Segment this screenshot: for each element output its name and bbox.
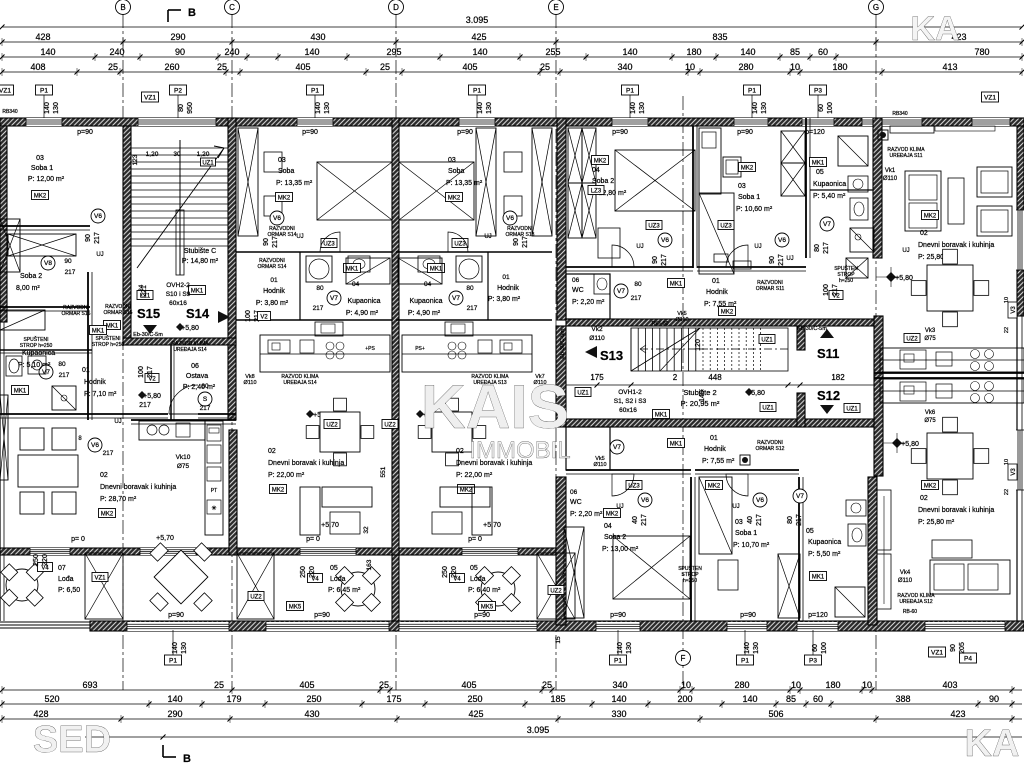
svg-text:217: 217 — [661, 254, 668, 266]
svg-text:P: 3,80 m²: P: 3,80 m² — [488, 296, 521, 303]
svg-text:140: 140 — [477, 102, 484, 114]
svg-text:90: 90 — [64, 258, 72, 265]
label UZ3 — [718, 221, 734, 230]
svg-text:G: G — [873, 3, 879, 12]
svg-text:140: 140 — [611, 694, 626, 704]
label V6 — [638, 493, 652, 507]
svg-text:10: 10 — [862, 680, 872, 690]
svg-text:Hodnik: Hodnik — [706, 289, 728, 296]
label MK2 — [706, 481, 723, 490]
svg-text:290: 290 — [170, 32, 185, 42]
svg-text:h=250: h=250 — [839, 278, 853, 284]
svg-text:p=120: p=120 — [805, 129, 825, 136]
svg-text:60x16: 60x16 — [169, 300, 187, 307]
svg-text:80: 80 — [466, 285, 474, 292]
svg-text:P: 4,90 m²: P: 4,90 m² — [346, 310, 379, 317]
svg-text:S10 i S9: S10 i S9 — [166, 291, 191, 298]
kitchen unit2 — [260, 335, 390, 372]
label VZ1 top-left — [0, 85, 14, 95]
svg-text:05: 05 — [330, 565, 338, 572]
svg-text:S14: S14 — [186, 306, 210, 321]
label LZ1 — [137, 291, 153, 300]
svg-text:V6: V6 — [661, 237, 669, 244]
svg-text:06: 06 — [572, 277, 580, 284]
svg-text:P1: P1 — [169, 657, 177, 664]
grid line G — [875, 14, 877, 690]
stairwell S11 west wall upper — [797, 326, 805, 350]
svg-text:295: 295 — [386, 47, 401, 57]
svg-text:UZ3: UZ3 — [648, 223, 660, 229]
svg-text:P: 2,20 m²: P: 2,20 m² — [570, 511, 603, 518]
svg-text:02: 02 — [456, 448, 464, 455]
svg-text:03: 03 — [36, 155, 44, 162]
svg-text:Dnevni boravak i kuhinja: Dnevni boravak i kuhinja — [100, 484, 176, 491]
stem — [177, 95, 179, 118]
ostava bottom wall — [131, 419, 236, 421]
window — [459, 118, 495, 126]
svg-text:250: 250 — [467, 694, 482, 704]
svg-text:10: 10 — [790, 62, 800, 72]
svg-text:+5,80: +5,80 — [181, 325, 199, 332]
desk u4L — [718, 560, 738, 590]
svg-text:MK1: MK1 — [655, 412, 668, 418]
svg-text:05: 05 — [470, 565, 478, 572]
svg-text:40: 40 — [747, 516, 754, 524]
coffee table s11 — [948, 178, 964, 224]
bed u4L soba1 — [699, 477, 732, 554]
label V6 — [503, 211, 517, 225]
stem b — [744, 630, 746, 655]
svg-text:140: 140 — [167, 694, 182, 704]
armchair l3 — [20, 492, 44, 514]
svg-text:217: 217 — [631, 295, 642, 302]
stair 2 walk line — [640, 348, 700, 350]
svg-text:P1: P1 — [311, 87, 319, 94]
svg-text:1,20: 1,20 — [197, 151, 210, 158]
svg-text:V6: V6 — [273, 215, 281, 222]
svg-text:140: 140 — [472, 47, 487, 57]
svg-text:p=90: p=90 — [740, 612, 756, 619]
svg-text:UZ1: UZ1 — [761, 337, 773, 343]
door arc soba2 u4 — [612, 245, 634, 267]
svg-text:MK1: MK1 — [346, 266, 359, 272]
armchair l4 — [52, 492, 76, 514]
S12 arrow down — [820, 405, 834, 414]
bottom exterior wall — [90, 621, 1024, 631]
svg-text:Ostava: Ostava — [186, 373, 208, 380]
svg-text:S: S — [203, 396, 208, 403]
wardrobe unit4 a2 — [568, 183, 582, 238]
washer unit2 — [306, 256, 332, 282]
svg-text:80: 80 — [634, 281, 642, 288]
svg-text:SED: SED — [33, 719, 111, 761]
svg-text:100: 100 — [823, 284, 830, 296]
label UZ2 kitchen s11 — [904, 334, 920, 343]
wardrobe unit4 b1 — [582, 128, 596, 183]
svg-text:MK2: MK2 — [708, 483, 721, 489]
label UZ3 — [626, 481, 642, 490]
svg-text:693: 693 — [82, 680, 97, 690]
wardrobe u4L — [564, 527, 584, 618]
svg-text:+5,80: +5,80 — [143, 393, 161, 400]
svg-text:428: 428 — [33, 709, 48, 719]
tall cabinets s12 — [877, 490, 891, 550]
svg-text:25: 25 — [542, 680, 552, 690]
label V7 — [327, 291, 341, 305]
svg-text:STROP h=250: STROP h=250 — [20, 343, 53, 349]
bathtub unit3 — [398, 258, 442, 284]
svg-text:MK1: MK1 — [92, 328, 105, 334]
left exterior wall upper — [0, 126, 7, 322]
window — [138, 118, 216, 126]
svg-text:80: 80 — [814, 244, 821, 252]
armchair l1 — [20, 428, 44, 450]
svg-text:40: 40 — [632, 516, 639, 524]
svg-text:h=250: h=250 — [683, 578, 697, 584]
dining table left — [154, 550, 208, 604]
svg-text:✳: ✳ — [211, 505, 216, 512]
svg-text:Ø110: Ø110 — [675, 317, 688, 323]
label P1 — [737, 655, 754, 665]
window — [612, 118, 648, 126]
svg-text:MK2: MK2 — [606, 511, 619, 517]
svg-text:180: 180 — [832, 62, 847, 72]
svg-text:85: 85 — [790, 47, 800, 57]
svg-text:280: 280 — [734, 680, 749, 690]
sofa left — [18, 455, 78, 487]
svg-text:MK2: MK2 — [448, 195, 461, 201]
washbasin unit3 — [445, 322, 473, 336]
loggia table 3 — [481, 572, 515, 606]
svg-text:P2: P2 — [174, 87, 182, 94]
svg-text:MK2: MK2 — [924, 483, 937, 489]
klima unit top — [890, 126, 934, 133]
wc s11 — [850, 198, 868, 220]
label P1 — [307, 85, 324, 95]
svg-text:UREĐAJA S11: UREĐAJA S11 — [890, 153, 923, 159]
stair 2 treads solid — [630, 328, 632, 371]
svg-text:P1: P1 — [614, 657, 622, 664]
svg-text:MK2: MK2 — [460, 487, 473, 493]
svg-text:OVH2-2: OVH2-2 — [166, 282, 190, 289]
sofa unit3 — [440, 487, 490, 507]
stair 2 treads dashed — [702, 328, 704, 371]
sofa unit2 — [300, 487, 320, 535]
kupaonica unit3 walls — [396, 251, 552, 253]
washbasin s12 — [846, 500, 866, 516]
svg-text:MK1: MK1 — [812, 160, 825, 166]
bathtub unit2 — [346, 258, 390, 284]
svg-text:V7: V7 — [617, 288, 625, 295]
svg-text:MK2: MK2 — [278, 195, 291, 201]
svg-text:P: 13,00 m²: P: 13,00 m² — [602, 546, 639, 553]
svg-text:408: 408 — [30, 62, 45, 72]
svg-text:340: 340 — [617, 62, 632, 72]
svg-text:04: 04 — [424, 281, 432, 288]
label V7 — [793, 489, 807, 503]
window — [127, 622, 229, 631]
svg-text:P: 14,80 m²: P: 14,80 m² — [182, 258, 219, 265]
svg-text:UZ2: UZ2 — [384, 422, 396, 428]
svg-text:p=90: p=90 — [474, 612, 490, 619]
svg-text:Hodnik: Hodnik — [84, 379, 106, 386]
label V7 — [820, 217, 834, 231]
svg-text:Ø75: Ø75 — [924, 336, 936, 342]
svg-text:V7: V7 — [823, 221, 831, 228]
label MK2 — [719, 307, 736, 316]
svg-text:217: 217 — [147, 366, 154, 378]
section marker B top — [167, 10, 169, 22]
svg-text:280: 280 — [738, 62, 753, 72]
svg-text:Soba 2: Soba 2 — [20, 273, 42, 280]
label UZ3 — [646, 221, 662, 230]
label UZ2 u3 — [382, 420, 398, 429]
side table unit4 soba1 — [723, 157, 741, 177]
shower s11 — [838, 136, 868, 166]
grid line D — [395, 14, 397, 690]
svg-text:Soba 1: Soba 1 — [738, 194, 760, 201]
label MK2 — [276, 193, 293, 202]
door arc soba1 u4L — [726, 474, 748, 496]
stairwell S11 west wall lower — [797, 393, 805, 427]
window — [596, 622, 640, 631]
svg-text:p=90: p=90 — [314, 612, 330, 619]
stem — [817, 95, 819, 118]
svg-text:217: 217 — [65, 269, 76, 276]
svg-text:551: 551 — [380, 466, 387, 477]
svg-text:P: 2,40 m²: P: 2,40 m² — [183, 384, 216, 391]
svg-text:60x16: 60x16 — [619, 407, 637, 414]
door hodnik-dnevni left — [169, 385, 198, 414]
svg-text:30: 30 — [173, 151, 181, 158]
kitchen s12 — [880, 379, 1024, 403]
stairwell 2 north wall — [566, 319, 874, 326]
grid line F — [682, 96, 684, 690]
window — [797, 622, 838, 631]
label UZ1 — [201, 158, 216, 166]
svg-text:SPUŠTENI: SPUŠTENI — [95, 335, 120, 342]
svg-text:UREĐAJA S12: UREĐAJA S12 — [899, 599, 933, 605]
svg-text:UREĐAJA S14: UREĐAJA S14 — [283, 380, 317, 386]
svg-text:V6: V6 — [94, 213, 102, 220]
bed unit2 — [317, 162, 392, 220]
svg-text:P: 6,50: P: 6,50 — [58, 587, 80, 594]
svg-text:25: 25 — [540, 62, 550, 72]
svg-text:290: 290 — [167, 709, 182, 719]
svg-text:100: 100 — [821, 642, 828, 654]
svg-text:P1: P1 — [741, 657, 749, 664]
upper corridor wall mid — [566, 266, 693, 268]
svg-text:Kupaonica: Kupaonica — [813, 181, 846, 188]
partition soba1/soba2 mid-lower — [690, 477, 692, 621]
svg-text:90: 90 — [263, 238, 270, 246]
label MK2 — [592, 156, 609, 165]
svg-text:130: 130 — [761, 102, 768, 114]
svg-text:UJ: UJ — [902, 248, 909, 254]
svg-text:LZ3: LZ3 — [591, 188, 602, 194]
kitchen s11 — [880, 348, 1024, 372]
svg-text:P: 28,70 m²: P: 28,70 m² — [100, 496, 137, 503]
kitchen unit2 fixtures — [268, 340, 290, 353]
stair C diagonal arrow — [137, 148, 224, 268]
label V6 — [270, 211, 284, 225]
S15 arrow — [143, 325, 157, 334]
svg-text:Dnevni boravak i kuhinja: Dnevni boravak i kuhinja — [268, 460, 344, 467]
S14 arrow — [218, 311, 230, 323]
window — [30, 548, 70, 555]
section marker B bottom — [162, 745, 164, 757]
svg-text:Soba 2: Soba 2 — [592, 178, 614, 185]
loggia pier 2 — [237, 553, 274, 619]
svg-text:780: 780 — [974, 47, 989, 57]
svg-text:P: 7,55 m²: P: 7,55 m² — [702, 458, 735, 465]
svg-text:P: 6,45 m²: P: 6,45 m² — [328, 587, 361, 594]
svg-text:506: 506 — [768, 709, 783, 719]
svg-text:330: 330 — [611, 709, 626, 719]
wardrobe unit4 a1 — [568, 128, 582, 183]
svg-text:06: 06 — [191, 363, 199, 370]
door arc soba2 u4L — [612, 474, 634, 496]
svg-text:950: 950 — [187, 102, 194, 114]
svg-text:Soba: Soba — [278, 168, 294, 175]
stair 2 diagonal — [631, 328, 700, 371]
svg-text:P: 6,40 m²: P: 6,40 m² — [468, 587, 501, 594]
label V6 — [775, 233, 789, 247]
label VZ1 bottom — [929, 647, 946, 657]
svg-text:250: 250 — [300, 566, 307, 578]
svg-text:ORMAR S12: ORMAR S12 — [756, 446, 785, 452]
stair 2 center dash — [700, 348, 788, 350]
partition left hodnik — [87, 272, 89, 420]
label MK2 — [458, 485, 475, 494]
label UZ1 — [759, 335, 775, 344]
svg-text:UJ: UJ — [484, 234, 491, 240]
label MK2 — [739, 163, 756, 172]
svg-text:V7: V7 — [330, 295, 338, 302]
right kitchens party wall — [874, 372, 1024, 374]
wc box upper — [566, 274, 610, 319]
label V7 — [39, 365, 53, 379]
grid line C — [231, 14, 233, 690]
window — [862, 118, 922, 126]
stairwell C west wall — [123, 126, 131, 345]
left exterior wall lower — [0, 322, 1, 621]
svg-text:200: 200 — [677, 694, 692, 704]
svg-text:25: 25 — [380, 62, 390, 72]
svg-text:RB-60: RB-60 — [903, 609, 917, 615]
svg-text:205: 205 — [959, 642, 966, 654]
svg-text:S12: S12 — [817, 388, 840, 403]
svg-text:S13: S13 — [600, 348, 623, 363]
svg-text:04: 04 — [352, 281, 360, 288]
svg-text:217: 217 — [756, 514, 763, 526]
dimension row 3 top — [2, 71, 1022, 73]
svg-text:130: 130 — [486, 102, 493, 114]
svg-text:SPUŠTENI: SPUŠTENI — [23, 336, 48, 343]
stairwell 2 south wall — [566, 419, 874, 427]
svg-text:130: 130 — [324, 102, 331, 114]
svg-text:90: 90 — [513, 238, 520, 246]
svg-text:Vk3: Vk3 — [925, 328, 936, 334]
left unit soba2/kupaonica divider — [0, 306, 90, 308]
svg-text:Hodnik: Hodnik — [704, 446, 726, 453]
svg-text:3.095: 3.095 — [527, 725, 550, 735]
svg-text:140: 140 — [622, 47, 637, 57]
klima box s12 — [740, 455, 750, 465]
svg-text:P: 7,10 m²: P: 7,10 m² — [84, 391, 117, 398]
svg-text:UJ: UJ — [114, 419, 121, 425]
dining table unit3 — [418, 426, 431, 439]
svg-text:217: 217 — [103, 450, 114, 457]
svg-text:STROP h=250: STROP h=250 — [92, 342, 125, 348]
svg-text:140: 140 — [752, 102, 759, 114]
wardrobe unit2 — [238, 128, 258, 236]
svg-text:Hodnik: Hodnik — [497, 285, 519, 292]
svg-text:425: 425 — [471, 32, 486, 42]
svg-text:UJ: UJ — [296, 234, 303, 240]
svg-text:MK1: MK1 — [106, 323, 119, 329]
svg-text:90: 90 — [175, 47, 185, 57]
label V6 — [91, 209, 105, 223]
stem b — [172, 630, 174, 655]
svg-text:220: 220 — [309, 566, 316, 578]
svg-text:80: 80 — [58, 361, 66, 368]
svg-text:260: 260 — [164, 62, 179, 72]
label V8 — [41, 256, 55, 270]
svg-text:80: 80 — [787, 516, 794, 524]
svg-text:240: 240 — [224, 47, 239, 57]
svg-text:03: 03 — [738, 183, 746, 190]
kitchen unit3 fixtures — [500, 340, 522, 353]
party wall G lower — [868, 477, 877, 625]
svg-text:KA: KA — [910, 10, 959, 48]
partition soba1/soba2 mid-upper — [692, 126, 694, 268]
svg-text:02: 02 — [100, 472, 108, 479]
label MK1 — [12, 386, 29, 395]
wardrobe u4L soba1 — [778, 554, 800, 618]
label V6 — [658, 233, 672, 247]
label V7 — [610, 440, 624, 454]
wardrobe s11 bath — [846, 258, 868, 278]
armchair s11 b — [977, 206, 1012, 236]
window — [140, 548, 196, 555]
svg-text:V3: V3 — [1011, 468, 1017, 476]
label P1 — [610, 655, 627, 665]
label P1 — [36, 85, 53, 95]
label V7 — [449, 291, 463, 305]
window right edge 2 — [1016, 430, 1024, 490]
svg-text:UZ3: UZ3 — [323, 241, 335, 247]
svg-text:UJ: UJ — [754, 244, 761, 250]
label V6 — [753, 493, 767, 507]
svg-text:UJ: UJ — [96, 252, 103, 258]
svg-text:130: 130 — [753, 642, 760, 654]
lower corridor wall mid — [566, 469, 691, 471]
svg-text:140: 140 — [315, 102, 322, 114]
svg-text:V6: V6 — [756, 497, 764, 504]
svg-text:UZ2: UZ2 — [250, 594, 262, 600]
svg-text:MK2: MK2 — [594, 158, 607, 164]
svg-text:250: 250 — [306, 694, 321, 704]
svg-text:P: 12,00 m²: P: 12,00 m² — [28, 176, 65, 183]
svg-text:100: 100 — [245, 310, 252, 322]
svg-text:WC: WC — [572, 287, 584, 294]
window right edge 1 — [1016, 210, 1024, 270]
svg-text:520: 520 — [44, 694, 59, 704]
wardrobe unit3 b — [476, 128, 496, 236]
left unit hodnik/dnevni wall — [0, 413, 168, 415]
svg-text:C: C — [229, 3, 235, 12]
